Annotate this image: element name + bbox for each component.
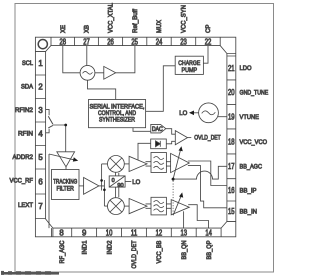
- DAC block: [151, 124, 166, 132]
- wire mixer I to amp I: [124, 163, 129, 165]
- wire XE pin28 to crystal osc: [63, 46, 80, 73]
- wire DAC to comparator: [166, 129, 176, 135]
- svg-text:LO: LO: [179, 110, 187, 117]
- svg-text:11: 11: [131, 228, 138, 237]
- wire mixer Q to amp Q: [124, 205, 129, 207]
- comparator U-ovld: [175, 131, 187, 145]
- left band pin dividers: [35, 52, 45, 219]
- wire filter Q to VGA Q (diff pair): [166, 204, 171, 208]
- svg-text:PUMP: PUMP: [182, 67, 198, 74]
- right pin labels: [240, 65, 269, 216]
- svg-text:SDA: SDA: [21, 83, 34, 90]
- wire charge pump to serial block: [146, 66, 176, 112]
- svg-text:23: 23: [180, 37, 187, 46]
- svg-text:90: 90: [117, 183, 123, 189]
- svg-text:DAC: DAC: [152, 127, 163, 133]
- figure outer border: [15, 4, 274, 273]
- phase splitter 0/90: [109, 176, 125, 187]
- svg-text:16: 16: [228, 186, 235, 195]
- pin numbers bottom: [59, 228, 212, 237]
- svg-text:RFIN: RFIN: [18, 130, 33, 137]
- svg-text:FILTER: FILTER: [56, 185, 74, 192]
- wire filter I to VGA I (diff pair): [166, 162, 170, 166]
- svg-text:3: 3: [38, 106, 42, 115]
- node rail junction A: [100, 179, 103, 182]
- svg-text:RF_AGC: RF_AGC: [59, 240, 66, 263]
- wire VGA I out to BB_IN pin15: [188, 166, 227, 208]
- svg-text:22: 22: [205, 37, 212, 46]
- wire VCO to VTUNE pin19: [218, 116, 227, 118]
- svg-text:RFIN2: RFIN2: [15, 107, 33, 114]
- svg-text:1: 1: [38, 59, 42, 68]
- svg-text:MUX: MUX: [156, 19, 163, 33]
- svg-text:LO: LO: [132, 179, 140, 186]
- wire amp Q to filter Q (diff pair): [146, 204, 152, 208]
- wire 0/90 to mixer Q: [116, 187, 119, 198]
- baseband amp Q U-bba2: [129, 199, 147, 214]
- switch RFIN2 pin3: [46, 109, 50, 115]
- bottom pin labels (rotated): [59, 240, 213, 269]
- svg-text:XE: XE: [60, 24, 67, 33]
- svg-text:VCC_XTAL: VCC_XTAL: [108, 3, 115, 33]
- svg-text:CHARGE: CHARGE: [178, 60, 200, 67]
- svg-text:SCL: SCL: [22, 60, 33, 67]
- node BB_AGC junction: [172, 178, 175, 181]
- serial interface control and synthesizer block U-ser: [89, 100, 146, 128]
- wire RF_AGC pin8 to RF amp: [48, 154, 50, 228]
- wire dotted gain control rail: [172, 181, 174, 214]
- svg-text:GND_TUNE: GND_TUNE: [240, 90, 269, 97]
- wire baseband tap to diode box: [138, 143, 151, 160]
- post tracking-filter amp U-pfa: [84, 178, 99, 195]
- mixer Q U-mix2: [108, 198, 125, 215]
- svg-text:0: 0: [112, 178, 115, 184]
- LO arrow from VCO: [190, 112, 199, 114]
- svg-text:10: 10: [106, 228, 113, 237]
- baseband VGA I U-vga1: [171, 153, 190, 172]
- wire VGA I out to BB_IP pin16: [188, 161, 227, 186]
- wire osc to serial block: [88, 80, 116, 99]
- baseband VGA Q U-vga2: [171, 200, 189, 215]
- left pin labels: [10, 60, 34, 209]
- svg-text:OVLD_DET: OVLD_DET: [194, 134, 220, 141]
- svg-text:15: 15: [228, 207, 235, 216]
- wire buffer out to Ref_Buff pin25: [116, 46, 135, 73]
- svg-text:VCC_BB: VCC_BB: [156, 240, 163, 264]
- svg-text:LDO: LDO: [240, 65, 252, 72]
- svg-text:BB_AGC: BB_AGC: [240, 164, 263, 171]
- reference buffer amp: [95, 66, 116, 79]
- svg-text:VCC_SYN: VCC_SYN: [181, 5, 188, 33]
- svg-text:9: 9: [82, 228, 86, 237]
- svg-text:4: 4: [38, 130, 43, 139]
- svg-text:24: 24: [156, 37, 163, 46]
- tracking filter U-tf: [52, 170, 80, 200]
- svg-text:8: 8: [59, 228, 63, 237]
- svg-text:13: 13: [181, 228, 188, 237]
- right band pin dividers: [227, 56, 236, 222]
- wire VGA Q out to BB_QP pin14: [188, 205, 208, 228]
- bottom band pin dividers: [52, 228, 222, 237]
- wire LO stub to 0/90: [125, 181, 131, 183]
- wire 0/90 to mixer I: [116, 172, 119, 176]
- svg-text:Ref_Buff: Ref_Buff: [132, 9, 139, 33]
- svg-text:OVLD_DET: OVLD_DET: [131, 241, 138, 269]
- svg-text:6: 6: [38, 177, 42, 186]
- wire diode box to comparator: [166, 141, 175, 144]
- top band pin dividers: [51, 37, 220, 45]
- svg-text:28: 28: [60, 37, 67, 46]
- svg-text:12: 12: [156, 228, 163, 237]
- lowpass filter Q U-lpf2: [151, 197, 166, 215]
- svg-text:7: 7: [38, 202, 42, 211]
- svg-text:17: 17: [228, 162, 235, 171]
- wire amp I to filter I (diff pair): [146, 162, 152, 166]
- crystal oscillator U-osc: [80, 65, 95, 80]
- corner cell lines: [35, 52, 235, 237]
- wire RF amp to tracking filter: [65, 167, 67, 170]
- pin numbers right: [228, 64, 235, 216]
- svg-text:IND1: IND1: [81, 240, 88, 254]
- mixer I U-mix1: [108, 156, 125, 173]
- top pin labels (rotated): [60, 3, 212, 33]
- baseband amp I U-bba1: [129, 156, 147, 171]
- svg-text:SYNTHESIZER: SYNTHESIZER: [99, 117, 135, 124]
- wire XB pin27 to crystal osc: [86, 46, 88, 66]
- wire switch common to RF amp: [53, 125, 66, 152]
- wire CP pin22 to charge pump: [203, 46, 208, 64]
- svg-text:XB: XB: [84, 24, 91, 33]
- pin 1 indicator circle: [38, 40, 47, 49]
- svg-text:BB_IN: BB_IN: [240, 209, 258, 216]
- svg-text:2: 2: [38, 83, 42, 92]
- wire VGA Q out to BB_QN pin13: [183, 211, 185, 228]
- wire amp to mixer rail: [99, 185, 102, 187]
- cut-off caption text at bottom: [1, 271, 59, 275]
- wire BB_AGC to pin17 with hop: [175, 166, 227, 179]
- node RF input junction: [64, 124, 67, 127]
- charge pump U-cp: [175, 56, 203, 74]
- chip inner cavity boundary with chamfered corners: [46, 46, 227, 229]
- wire mixer feed rail: [102, 164, 108, 206]
- wire tracking filter to post amp: [79, 185, 84, 187]
- svg-text:14: 14: [205, 228, 212, 237]
- VCO U-vco: [199, 103, 219, 123]
- lowpass filter I U-lpf1: [151, 153, 166, 173]
- svg-text:IND2: IND2: [106, 240, 113, 254]
- svg-text:25: 25: [131, 37, 138, 46]
- svg-text:18: 18: [228, 137, 235, 146]
- svg-text:BB_QN: BB_QN: [181, 240, 188, 259]
- svg-text:21: 21: [228, 64, 235, 73]
- pin numbers top: [60, 37, 212, 46]
- pin numbers left: [38, 59, 43, 211]
- svg-text:27: 27: [83, 37, 90, 46]
- svg-text:LEXT: LEXT: [18, 202, 33, 209]
- svg-text:19: 19: [228, 113, 235, 122]
- svg-text:BB_IP: BB_IP: [240, 187, 258, 194]
- svg-text:CP: CP: [205, 24, 212, 33]
- overload detector diode box: [151, 139, 167, 149]
- RF variable gain amp U-rfvga: [57, 152, 75, 167]
- svg-text:20: 20: [228, 88, 235, 97]
- svg-text:BB_QP: BB_QP: [206, 240, 213, 260]
- svg-text:VTUNE: VTUNE: [240, 114, 260, 121]
- node rail junction B: [103, 189, 106, 192]
- svg-text:VCC_RF: VCC_RF: [10, 177, 34, 184]
- svg-text:ADDR2: ADDR2: [13, 154, 34, 161]
- svg-text:VCC_VCO: VCC_VCO: [240, 139, 268, 146]
- wire serial block to DAC: [133, 128, 151, 132]
- svg-text:TRACKING: TRACKING: [53, 178, 77, 185]
- switch RFIN pin4: [46, 129, 50, 133]
- svg-text:26: 26: [107, 37, 114, 46]
- chip outline (outer): [35, 37, 235, 237]
- svg-text:5: 5: [38, 153, 43, 162]
